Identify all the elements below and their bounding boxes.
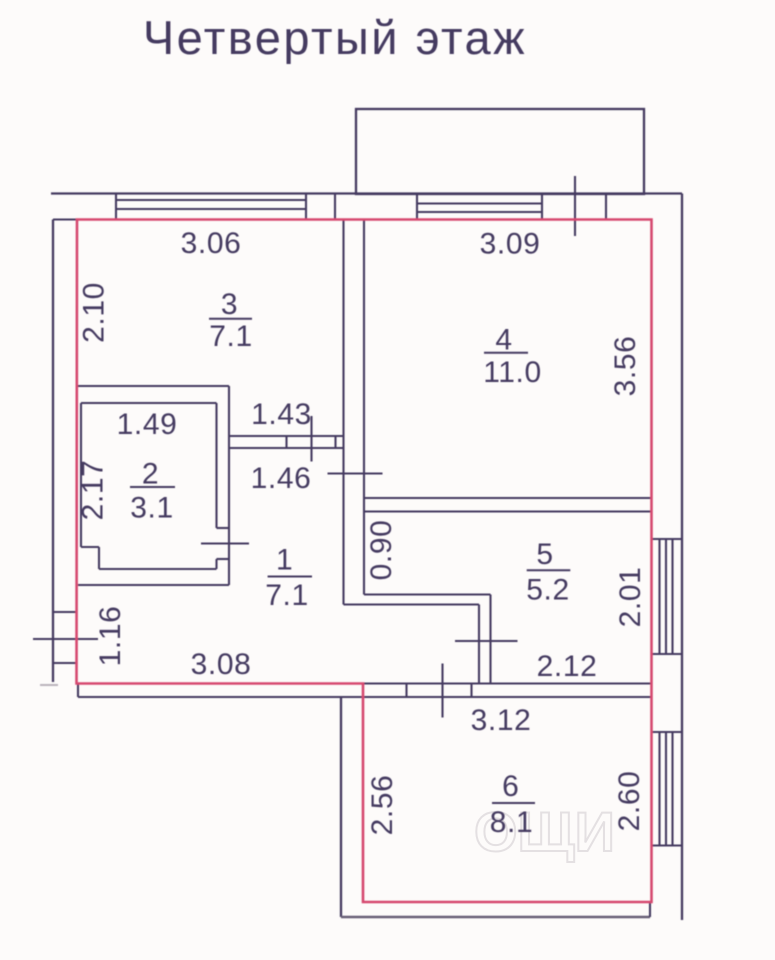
svg-text:2.12: 2.12 xyxy=(537,650,598,683)
svg-text:5.2: 5.2 xyxy=(526,574,570,607)
svg-text:3.1: 3.1 xyxy=(130,492,174,525)
svg-text:4: 4 xyxy=(495,324,512,357)
left wall dimension line xyxy=(33,638,98,640)
top wall divider B xyxy=(605,194,607,220)
hall/room5 jog north line xyxy=(364,593,491,595)
svg-text:2.17: 2.17 xyxy=(77,460,110,521)
room5 bar xyxy=(527,569,571,571)
svg-text:3.12: 3.12 xyxy=(471,704,532,737)
room2 notch vertical xyxy=(98,547,100,569)
corridor south wall lower line xyxy=(78,696,652,698)
room5 west wall outer line xyxy=(478,605,480,684)
inner top wall black stub xyxy=(53,218,78,220)
right exterior wall xyxy=(681,194,683,921)
passage door jamb west xyxy=(285,436,287,448)
svg-text:3.09: 3.09 xyxy=(480,228,541,261)
svg-text:7.1: 7.1 xyxy=(265,579,309,612)
svg-text:6: 6 xyxy=(502,770,519,803)
room2 box inner bottom xyxy=(99,568,217,570)
watermark ЦИ letters xyxy=(474,800,615,863)
svg-text:1: 1 xyxy=(276,543,293,576)
balcony outline xyxy=(356,109,644,194)
top exterior wall outer line xyxy=(51,192,682,194)
door tick corridor-room6 xyxy=(441,664,443,718)
window R1 hatch lines xyxy=(658,539,660,654)
window R2 hatch lines xyxy=(658,732,660,846)
svg-text:1.46: 1.46 xyxy=(251,462,312,495)
svg-text:3.06: 3.06 xyxy=(181,227,242,260)
door jamb corridor-room6 east xyxy=(470,684,472,697)
room5 west wall inner line xyxy=(489,595,491,684)
room2 box inner left xyxy=(80,403,82,547)
window R1 bottom cap xyxy=(652,653,683,655)
room5 door tick xyxy=(455,640,518,642)
svg-text:8.1: 8.1 xyxy=(490,806,534,839)
room2 box outer right xyxy=(228,386,230,585)
svg-text:3.56: 3.56 xyxy=(609,336,642,397)
room2 door tick xyxy=(201,542,249,544)
left wall tick lower xyxy=(53,662,77,664)
svg-text:2.60: 2.60 xyxy=(613,771,646,832)
room6 bottom-right connector xyxy=(649,902,651,917)
room6 bar xyxy=(492,802,535,804)
window W2 room4: mullion lines xyxy=(417,202,542,204)
room2 bar xyxy=(130,486,175,488)
svg-text:2.10: 2.10 xyxy=(78,282,111,343)
passage door jamb east xyxy=(334,436,336,448)
wall between rooms 4 and 5, north line xyxy=(364,497,652,499)
room2 door jamb lower xyxy=(217,558,230,560)
passage wall south line xyxy=(229,447,344,449)
room1 bar xyxy=(268,576,312,578)
top wall divider A xyxy=(334,194,336,220)
wall between rooms 4 and 5, south line xyxy=(364,510,652,512)
dimension tick top wall xyxy=(574,176,576,236)
room2 box outer bottom xyxy=(78,584,229,586)
left wall tick upper xyxy=(53,611,77,613)
hall/room5 jog south line xyxy=(344,603,480,605)
room2 box inner right upper xyxy=(215,403,217,528)
svg-text:3.08: 3.08 xyxy=(191,648,252,681)
room2 box inner right lower xyxy=(215,559,217,569)
svg-text:2.01: 2.01 xyxy=(614,567,647,628)
passage dimension tick xyxy=(310,416,312,462)
svg-text:2: 2 xyxy=(142,458,159,491)
svg-text:7.1: 7.1 xyxy=(209,320,253,353)
room6 bottom exterior wall xyxy=(341,916,650,918)
window R1 top cap xyxy=(652,538,683,540)
tick across wall 3/4 xyxy=(328,472,383,474)
door jamb corridor-room6 west xyxy=(405,684,407,697)
window W1 room3: mullion lines xyxy=(116,199,306,201)
room2 door jamb upper xyxy=(217,527,230,529)
room6 west exterior wall xyxy=(340,697,342,917)
svg-text:2.56: 2.56 xyxy=(366,775,399,836)
svg-text:0.90: 0.90 xyxy=(365,520,398,581)
room2 box outer top xyxy=(78,385,229,387)
svg-text:Четвертый этаж: Четвертый этаж xyxy=(143,11,527,64)
left exterior wall xyxy=(52,220,54,683)
faint exterior dash bottom-left xyxy=(40,684,58,686)
room5/room6 wall upper line xyxy=(363,682,652,684)
room2 box inner top xyxy=(81,402,217,404)
window R2 bottom cap xyxy=(652,844,683,846)
wall between rooms 3 and 4, west line xyxy=(342,220,344,605)
svg-text:3: 3 xyxy=(221,288,238,321)
svg-text:1.16: 1.16 xyxy=(94,606,127,667)
room2 notch horizontal xyxy=(81,546,99,548)
room3 bar xyxy=(209,318,252,320)
wall between rooms 3 and 4, east line xyxy=(363,220,365,595)
corridor south wall left connector xyxy=(77,684,79,698)
window R2 top cap xyxy=(652,731,683,733)
svg-text:1.43: 1.43 xyxy=(251,398,312,431)
svg-text:1.49: 1.49 xyxy=(117,408,178,441)
svg-text:11.0: 11.0 xyxy=(483,356,542,389)
window W1 room3: end jambs xyxy=(115,194,117,220)
passage wall north line xyxy=(229,435,344,437)
red apartment boundary xyxy=(77,220,652,903)
room4 bar xyxy=(484,352,528,354)
svg-text:5: 5 xyxy=(536,538,553,571)
window W2 room4: end jambs xyxy=(416,194,418,220)
